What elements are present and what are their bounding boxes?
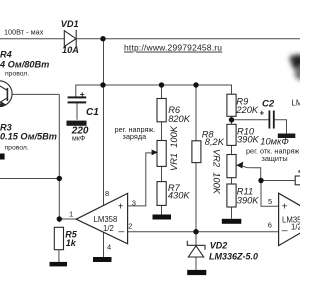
svg-text:5: 5 xyxy=(268,197,272,206)
svg-text:http://www.299792458.ru: http://www.299792458.ru xyxy=(124,43,222,53)
svg-text:VD2: VD2 xyxy=(210,240,228,250)
svg-text:3: 3 xyxy=(132,198,136,207)
svg-text:1: 1 xyxy=(69,210,73,219)
svg-text:провол.: провол. xyxy=(5,71,29,78)
svg-text:защиты: защиты xyxy=(262,154,288,163)
svg-text:1/2: 1/2 xyxy=(103,224,114,233)
svg-text:390K: 390K xyxy=(237,196,260,206)
svg-text:мкФ: мкФ xyxy=(72,136,85,143)
svg-text:390K: 390K xyxy=(237,134,260,144)
svg-text:10мкФ: 10мкФ xyxy=(260,136,289,146)
svg-text:VR2 100K: VR2 100K xyxy=(211,149,221,195)
svg-text:430K: 430K xyxy=(168,191,191,201)
svg-text:–: – xyxy=(282,225,288,237)
svg-text:VR1 100K: VR1 100K xyxy=(169,125,179,171)
svg-text:1/2: 1/2 xyxy=(291,223,300,232)
svg-text:10A: 10A xyxy=(62,45,79,55)
svg-text:R4: R4 xyxy=(0,50,12,60)
svg-text:+: + xyxy=(282,200,288,212)
svg-text:+: + xyxy=(80,89,85,99)
svg-text:8,2K: 8,2K xyxy=(205,137,225,147)
svg-text:4 Ом/80Вт: 4 Ом/80Вт xyxy=(0,59,49,69)
svg-text:4: 4 xyxy=(107,242,111,251)
svg-text:LM358: LM358 xyxy=(94,215,118,224)
svg-text:100Вт - мах: 100Вт - мах xyxy=(4,28,44,37)
svg-text:VD1: VD1 xyxy=(61,19,79,29)
svg-text:–: – xyxy=(119,226,125,238)
svg-text:LM358: LM358 xyxy=(292,98,301,107)
svg-text:820K: 820K xyxy=(168,114,191,124)
svg-text:0.15 Ом/5Вт: 0.15 Ом/5Вт xyxy=(0,132,57,142)
svg-text:+: + xyxy=(118,201,124,213)
svg-text:провол.: провол. xyxy=(5,144,29,151)
svg-text:C1: C1 xyxy=(86,107,99,118)
svg-text:220K: 220K xyxy=(235,105,259,115)
svg-text:LM336Z-5.0: LM336Z-5.0 xyxy=(209,252,258,262)
svg-text:2: 2 xyxy=(128,221,132,230)
svg-text:8: 8 xyxy=(105,189,109,198)
svg-text:1k: 1k xyxy=(66,238,77,248)
svg-text:+: + xyxy=(260,109,265,118)
svg-text:6: 6 xyxy=(268,221,272,230)
svg-text:заряда: заряда xyxy=(123,132,148,141)
